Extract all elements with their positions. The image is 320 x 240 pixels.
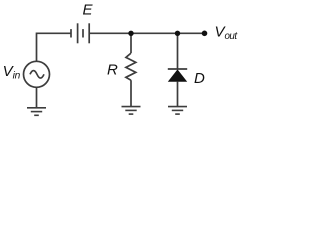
junction dot node R [128, 31, 133, 36]
wire resistor to ground [130, 80, 132, 106]
svg-text:E: E [83, 2, 94, 19]
svg-text:Vout: Vout [215, 23, 239, 42]
diode D triangle [168, 69, 187, 81]
diode D cathode bar [168, 68, 187, 70]
svg-text:R: R [107, 62, 118, 79]
ground under source [27, 108, 46, 116]
wire node to resistor [130, 33, 132, 53]
resistor R zigzag [126, 53, 136, 80]
wire node to diode [177, 33, 179, 69]
wire source bottom to ground [36, 87, 38, 108]
battery E plate short 2 [82, 29, 84, 37]
svg-text:Vin: Vin [3, 63, 21, 81]
wire diode to ground [177, 82, 179, 107]
ground under diode [168, 107, 187, 115]
ac source sine wave [30, 71, 44, 79]
battery E plate long 1 [77, 23, 79, 43]
junction dot node D [175, 31, 180, 36]
wire top rail: battery to Vout terminal [89, 32, 204, 34]
ac source V_in circle [24, 61, 50, 87]
ground under resistor [122, 107, 141, 115]
terminal dot V_out [202, 31, 208, 37]
svg-text:D: D [194, 70, 205, 87]
battery E plate long 2 [88, 23, 90, 43]
battery E plate short 1 [70, 29, 72, 37]
wire top-left: source top to battery [37, 33, 72, 61]
